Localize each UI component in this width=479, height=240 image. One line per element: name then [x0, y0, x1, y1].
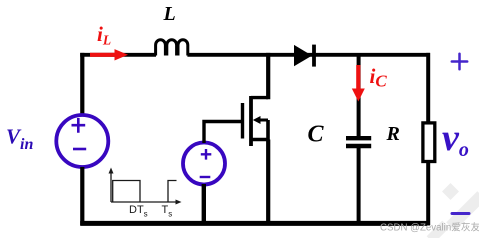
- gate source minus sign: [200, 176, 211, 178]
- wire right rail bottom: [426, 162, 430, 225]
- square wave pulse: [113, 181, 177, 203]
- transistor Q1 gate bar: [241, 103, 244, 139]
- svg-text:Ts: Ts: [162, 204, 173, 219]
- resistor R: [423, 123, 435, 162]
- current arrow iC: [352, 65, 365, 102]
- wire gate source to gate: [204, 122, 242, 144]
- wire source vertical: [266, 140, 270, 226]
- current arrow iL: [90, 49, 128, 60]
- svg-text:vo: vo: [442, 117, 469, 161]
- wire left rail top: [80, 53, 84, 114]
- capacitor C plates: [346, 138, 371, 146]
- svg-text:R: R: [386, 123, 400, 145]
- diode D1: [294, 45, 314, 67]
- terminal plus output: [452, 54, 467, 70]
- terminal minus output: [452, 212, 469, 215]
- watermark logo shape upper diamond: [442, 183, 459, 200]
- watermark logo shape diagonal band: [446, 191, 479, 231]
- svg-text:DTs: DTs: [129, 204, 148, 219]
- wire capacitor top: [357, 53, 361, 137]
- wire right rail top: [426, 53, 430, 123]
- transistor Q1 source stub: [250, 138, 268, 141]
- square wave horizontal axis: [111, 201, 177, 203]
- wire bottom rail: [80, 221, 430, 226]
- source Vin: [56, 115, 108, 167]
- svg-text:Vin: Vin: [6, 125, 33, 154]
- square wave vertical axis: [110, 172, 112, 202]
- wire top rail: [80, 53, 430, 57]
- gate drive source: [183, 143, 225, 185]
- Vin plus sign: [72, 118, 86, 133]
- wire gate source bottom: [202, 184, 206, 225]
- wire left rail bottom: [80, 167, 84, 225]
- transistor Q1 channel bar: [249, 96, 253, 146]
- Vin minus sign: [73, 148, 86, 151]
- wire drain vertical: [266, 53, 270, 99]
- svg-text:L: L: [163, 3, 176, 25]
- gate source plus sign: [201, 149, 212, 160]
- wire capacitor bottom: [357, 148, 361, 225]
- svg-text:iC: iC: [370, 64, 388, 91]
- svg-text:C: C: [308, 122, 325, 148]
- svg-text:iL: iL: [97, 22, 111, 48]
- transistor Q1 body arrow: [253, 116, 268, 124]
- transistor Q1 drain stub: [251, 96, 268, 99]
- inductor L: [156, 40, 188, 56]
- watermark logo shape bottom piece: [427, 221, 450, 240]
- svg-text:CSDN @Zevalin爱灰友: CSDN @Zevalin爱灰友: [380, 220, 479, 233]
- transistor Q1 body-source rail: [266, 120, 270, 140]
